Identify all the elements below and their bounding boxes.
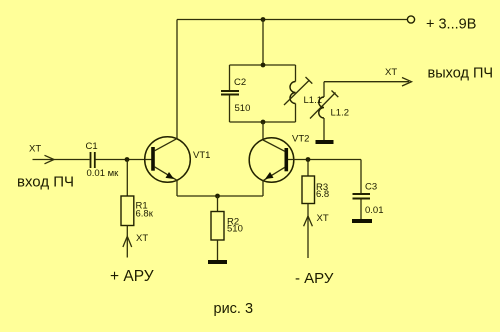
inductor L1.2 xyxy=(310,82,338,140)
svg-text:510: 510 xyxy=(227,224,243,235)
wire VT2 collector riser xyxy=(262,122,264,140)
svg-text:C3: C3 xyxy=(365,182,377,193)
junction dot VT1 base node xyxy=(125,157,130,162)
junction dot tank top xyxy=(261,63,266,68)
wire C3 drop xyxy=(360,160,362,194)
svg-text:XT: XT xyxy=(317,213,329,224)
junction dot VT2 base node xyxy=(306,157,311,162)
svg-text:6.8к: 6.8к xyxy=(136,209,154,220)
capacitor C2 xyxy=(221,65,239,122)
svg-text:XT: XT xyxy=(136,233,148,244)
capacitor C3 xyxy=(353,194,371,199)
wire C3 to ground xyxy=(360,200,362,220)
wire R3 drop xyxy=(307,160,309,177)
svg-text:VT1: VT1 xyxy=(193,150,210,161)
wire output line xyxy=(324,81,409,83)
wire VT2 base to C3 xyxy=(288,159,361,161)
svg-text:вход ПЧ: вход ПЧ xyxy=(17,174,74,191)
svg-text:рис. 3: рис. 3 xyxy=(214,301,254,317)
svg-text:VT2: VT2 xyxy=(292,134,309,145)
wire R2 drop xyxy=(217,196,219,212)
svg-text:- АРУ: - АРУ xyxy=(295,270,334,287)
svg-text:L1.1: L1.1 xyxy=(304,95,323,106)
+ARU arrowhead xyxy=(123,236,132,247)
transistor VT2 xyxy=(249,138,294,183)
ground symbol below R2 xyxy=(208,260,227,264)
resistor R2 xyxy=(211,212,224,241)
wire tank riser from rail xyxy=(262,20,264,66)
junction dot tank bottom xyxy=(261,120,266,125)
junction dot top rail xyxy=(261,17,266,22)
svg-text:+ 3...9В: + 3...9В xyxy=(426,17,476,33)
svg-text:XT: XT xyxy=(385,67,397,78)
power terminal circle xyxy=(407,16,414,23)
wire R2 to ground xyxy=(217,240,219,260)
resistor R1 xyxy=(121,196,134,226)
svg-text:выход ПЧ: выход ПЧ xyxy=(428,66,494,82)
wire top supply rail xyxy=(177,19,407,21)
svg-text:6.8: 6.8 xyxy=(316,189,329,200)
ground symbol below L1.2 xyxy=(316,140,334,144)
svg-text:0.01: 0.01 xyxy=(365,205,384,216)
transistor VT1 xyxy=(145,137,191,183)
output arrowhead xyxy=(402,78,412,87)
wire tank top side xyxy=(230,64,296,66)
svg-text:L1.2: L1.2 xyxy=(331,108,350,119)
junction dot emitter rail xyxy=(215,194,220,199)
wire emitter rail xyxy=(177,195,263,197)
resistor R3 xyxy=(302,176,315,204)
capacitor C1 xyxy=(91,152,95,168)
wire C1 to VT1 base xyxy=(96,159,152,161)
wire VT1 collector riser xyxy=(176,20,178,140)
wire R1 drop xyxy=(126,160,128,197)
svg-text:0.01 мк: 0.01 мк xyxy=(87,168,120,179)
input arrowhead xyxy=(45,155,55,164)
wire VT1 emitter drop xyxy=(176,180,178,196)
svg-text:510: 510 xyxy=(235,103,251,114)
wire R1 to +ARU xyxy=(126,226,128,258)
wire input line xyxy=(33,159,90,161)
ground symbol below C3 xyxy=(352,219,372,223)
-ARU arrowhead xyxy=(304,216,313,226)
wire R3 to -ARU xyxy=(307,204,309,259)
svg-text:C1: C1 xyxy=(86,141,98,152)
svg-text:C2: C2 xyxy=(234,77,246,88)
wire VT2 emitter drop xyxy=(262,181,264,196)
inductor L1.1 xyxy=(284,65,312,122)
wire tank bottom side xyxy=(230,121,296,123)
svg-text:+ АРУ: + АРУ xyxy=(110,268,154,285)
svg-text:XT: XT xyxy=(29,144,41,155)
